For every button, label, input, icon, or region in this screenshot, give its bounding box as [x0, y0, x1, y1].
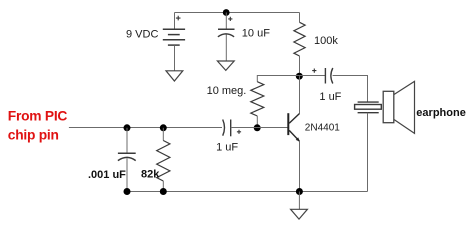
crystal earphone element top plate	[358, 101, 379, 103]
node ground rail dot (82k)	[160, 188, 167, 195]
svg-text:2N4401: 2N4401	[305, 122, 340, 133]
node input junction dot 1	[124, 124, 131, 131]
wire emitter down to ground rail	[299, 141, 301, 191]
battery B1 plus polarity mark	[176, 16, 181, 21]
capacitor C1 10 uF	[218, 29, 235, 37]
resistor R1 100k	[294, 22, 305, 56]
capacitor C2 plus polarity mark	[237, 130, 241, 134]
wire from C1 to ground	[225, 35, 227, 62]
battery B1 9 VDC positive lead wire	[174, 13, 176, 30]
ground main	[291, 209, 308, 219]
wire .001 uF top lead	[126, 128, 128, 153]
ground below C1	[217, 61, 234, 70]
wire battery negative lead	[174, 45, 176, 71]
svg-text:10 uF: 10 uF	[242, 28, 270, 40]
wire C4 to earphone top	[333, 76, 368, 103]
ground below battery	[166, 71, 183, 81]
wire C2 to transistor base	[231, 127, 289, 129]
svg-text:chip pin: chip pin	[8, 128, 59, 143]
crystal earphone element body	[355, 105, 382, 110]
wire ground rail to ground symbol	[298, 192, 300, 210]
svg-text:.001 uF: .001 uF	[88, 169, 126, 181]
wire top rail down to R 100k	[299, 13, 301, 23]
crystal earphone element bottom plate	[358, 112, 379, 114]
wire top rail	[175, 12, 300, 14]
svg-text:10 meg.: 10 meg.	[207, 85, 247, 97]
wire earphone bottom to ground rail	[367, 113, 369, 192]
wire .001 uF bottom lead	[126, 158, 128, 191]
wire 82k bottom lead	[162, 181, 164, 192]
node ground rail dot (emitter)	[296, 188, 303, 195]
wire collector node to R 10 meg top	[257, 76, 299, 82]
wire collector node to C4 1 uF	[300, 75, 326, 77]
node collector junction dot	[296, 73, 303, 80]
svg-text:1 uF: 1 uF	[216, 142, 238, 154]
resistor R2 10 meg	[251, 82, 264, 116]
transistor Q1 2N4401 base bar	[287, 113, 289, 135]
transistor Q1 emitter lead with arrow	[289, 130, 299, 141]
svg-text:82k: 82k	[141, 169, 160, 181]
wire from top rail to C 10uF	[225, 13, 227, 30]
svg-text:100k: 100k	[314, 35, 338, 47]
node ground rail dot left (.001 uF)	[124, 188, 131, 195]
capacitor C1 10 uF plus polarity mark	[228, 17, 232, 21]
svg-text:earphone: earphone	[416, 107, 466, 119]
svg-text:1 uF: 1 uF	[319, 91, 341, 103]
wire collector node down to Q1	[299, 76, 301, 113]
node base junction dot	[254, 124, 261, 131]
resistor R3 82k	[157, 141, 170, 182]
capacitor C4 1 uF output coupling	[325, 68, 332, 84]
capacitor C3 .001 uF	[118, 153, 136, 160]
speaker cone	[394, 81, 415, 133]
battery B1 9 VDC	[163, 29, 185, 45]
node junction dot on top rail	[223, 9, 230, 16]
node input junction dot 2	[160, 124, 167, 131]
speaker driver rectangle	[383, 91, 394, 122]
capacitor C4 plus polarity mark	[312, 69, 316, 73]
transistor Q1 collector lead	[289, 114, 299, 124]
capacitor C2 1 uF input coupling	[223, 120, 231, 137]
wire 82k top lead	[162, 128, 164, 141]
svg-text:From PIC: From PIC	[8, 108, 68, 123]
svg-text:9 VDC: 9 VDC	[126, 29, 158, 41]
wire input line from PIC pin	[69, 127, 222, 129]
wire R 100k to collector node	[299, 56, 301, 76]
wire R 10 meg bottom to base node	[256, 116, 258, 128]
wire ground rail bottom	[127, 191, 368, 193]
